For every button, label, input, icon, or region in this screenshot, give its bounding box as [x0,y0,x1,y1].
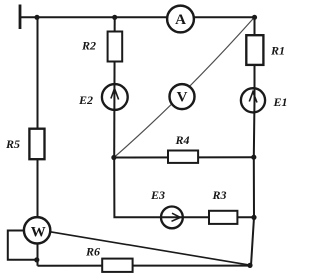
wattmeter W circle [24,217,50,243]
resistor R6 [102,259,132,272]
svg-text:W: W [31,224,46,240]
wire diagonal voltmeter branch [114,18,254,158]
junction node bottom-right [247,263,252,268]
source E2 arrowhead [111,89,119,100]
wire bottom horizontal [38,265,252,267]
junction node top-right [252,15,257,20]
voltmeter V circle [170,84,195,109]
wire top horizontal node 1 [20,16,255,18]
svg-text:R4: R4 [174,133,189,147]
wire R4 row [114,156,254,158]
resistor R5 [29,129,44,160]
svg-text:E1: E1 [272,95,287,109]
junction node below W [34,257,39,262]
wire right vertical [251,17,255,265]
junction node top-left [34,15,39,20]
source E1 (circle) [241,88,265,112]
resistor R2 [108,32,123,62]
resistor R3 [209,211,237,224]
svg-text:R6: R6 [85,245,100,259]
wire R2-E2 branch vertical [113,17,116,157]
svg-text:A: A [175,12,186,28]
svg-text:E2: E2 [78,93,93,107]
source E2 (circle) [102,84,128,110]
svg-text:R3: R3 [211,188,226,202]
junction node mid-left (R4/diagonal) [111,155,116,160]
resistor R1 [246,35,263,65]
ammeter A circle [167,6,194,33]
svg-text:R5: R5 [5,137,20,151]
wire E3-R3 row [114,158,254,218]
svg-text:V: V [177,90,188,106]
svg-text:E3: E3 [150,188,165,202]
source E3 (circle) [161,207,183,229]
wire left vertical [37,17,39,265]
junction node top R2 tap [112,15,117,20]
junction node R3 right [251,215,256,220]
source E1 arrowhead [249,92,257,103]
terminal bar (left input) [19,5,22,30]
svg-text:R1: R1 [270,44,285,58]
resistor R4 [168,151,198,163]
svg-text:R2: R2 [81,39,96,53]
source E3 arrowhead [172,213,181,221]
junction node mid-right (R4/right bus) [251,155,256,160]
wire wattmeter diagonal [50,232,251,265]
wattmeter left loop wire [8,231,37,260]
